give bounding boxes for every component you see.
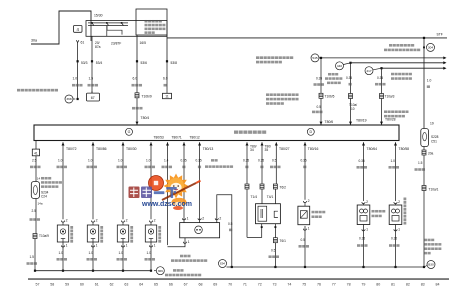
current track numbers [36, 283, 440, 287]
svg-text:0.5: 0.5 [272, 159, 277, 163]
svg-text:T6/2: T6/2 [280, 186, 287, 190]
svg-text:61: 61 [81, 40, 85, 44]
svg-text:1: 1 [187, 216, 189, 220]
svg-text:0.5: 0.5 [301, 238, 306, 242]
wire 440 to connector T10a/10 [346, 63, 367, 125]
svg-text:1.0: 1.0 [73, 76, 78, 80]
injector ground wire at x 151 [145, 242, 156, 272]
svg-text:368: 368 [66, 97, 71, 101]
note 417 connection point [391, 73, 412, 80]
svg-text:0.35: 0.35 [359, 236, 365, 240]
svg-text:T10a/3: T10a/3 [385, 95, 395, 99]
note connection point engine harness upper [171, 255, 207, 262]
svg-text:73: 73 [273, 283, 277, 287]
svg-text:82: 82 [406, 283, 410, 287]
svg-text:2.5: 2.5 [32, 159, 37, 163]
wire 545 to connector T10b/5 [312, 57, 335, 125]
svg-text:T10a/1: T10a/1 [429, 187, 439, 191]
svg-text:C24: C24 [41, 195, 47, 199]
svg-text:60: 60 [80, 283, 84, 287]
injector valve at x 151 [145, 219, 161, 243]
svg-text:369: 369 [158, 269, 163, 273]
svg-text:T80/13: T80/13 [203, 147, 214, 151]
svg-text:1.4: 1.4 [164, 159, 169, 163]
note 440 connection point [325, 73, 342, 84]
svg-text:10: 10 [351, 107, 355, 111]
fuel pump relay box [136, 9, 167, 35]
svg-text:D: D [309, 130, 312, 134]
svg-text:0.5: 0.5 [271, 248, 276, 252]
junction point 440 line [336, 61, 447, 70]
svg-text:www.dzsc.com: www.dzsc.com [141, 201, 192, 208]
svg-text:57: 57 [36, 283, 40, 287]
svg-text:62: 62 [110, 283, 114, 287]
svg-text:1.0: 1.0 [119, 251, 124, 255]
svg-text:81: 81 [391, 283, 395, 287]
ignition coil ground wire at x 395.5 [389, 225, 400, 269]
svg-text:53/8: 53/8 [171, 61, 178, 65]
svg-text:6.0: 6.0 [133, 77, 138, 81]
svg-text:T80/28: T80/28 [385, 118, 396, 122]
svg-text:STF: STF [437, 33, 443, 37]
svg-text:0.35: 0.35 [301, 159, 307, 163]
current track rail [28, 278, 449, 280]
svg-text:1: 1 [188, 240, 190, 244]
ECU engine control unit box [34, 125, 399, 141]
svg-text:6.0: 6.0 [163, 77, 168, 81]
svg-text:79: 79 [361, 283, 365, 287]
svg-text:84: 84 [436, 283, 440, 287]
wire T80/71 to throttle unit lower pin [162, 142, 190, 247]
svg-text:61: 61 [95, 283, 99, 287]
junction point 368 [65, 95, 75, 103]
svg-text:S234: S234 [41, 190, 49, 194]
wire 61 to junction 53/3 [77, 43, 88, 65]
svg-text:1.0: 1.0 [59, 251, 64, 255]
fuse S234 [31, 182, 48, 199]
svg-text:14a: 14a [38, 202, 43, 206]
svg-text:76: 76 [317, 283, 321, 287]
note plug on gearbox control unit [384, 110, 409, 117]
svg-text:30a: 30a [31, 39, 37, 43]
svg-text:0.35: 0.35 [258, 159, 264, 163]
junction point 304 [423, 43, 434, 51]
connector T6/1 to ground [269, 238, 287, 268]
svg-text:0.35: 0.35 [359, 159, 365, 163]
svg-text:1.0: 1.0 [58, 159, 63, 163]
component box 11 [163, 93, 172, 98]
svg-text:1: 1 [366, 227, 368, 231]
svg-text:72: 72 [258, 283, 262, 287]
svg-text:35: 35 [265, 148, 269, 152]
svg-text:1: 1 [96, 244, 98, 248]
svg-text:417: 417 [366, 69, 371, 73]
injector ground wire at x 63 [57, 242, 68, 272]
watermark logo text [129, 187, 192, 209]
svg-text:67: 67 [91, 96, 95, 100]
junction point 417 line [365, 67, 447, 75]
svg-text:T80/19: T80/19 [356, 118, 367, 122]
wire 53/4 to relay 67 [88, 36, 103, 93]
ignition coil box at x 363.5 [357, 205, 370, 225]
injector valve at x 63 [57, 219, 73, 243]
svg-text:1.0: 1.0 [118, 159, 123, 163]
svg-text:83: 83 [421, 283, 425, 287]
wire to fuse S234 [30, 156, 41, 182]
wire 53/8 to box 11 [163, 35, 177, 93]
note green connection point fuse box [384, 44, 420, 51]
svg-text:2: 2 [126, 219, 128, 223]
fuse holder box 41 [32, 141, 39, 156]
relay 67 box [87, 91, 100, 101]
injector valve at x 123 [117, 219, 133, 243]
svg-text:E94: E94 [220, 262, 225, 266]
svg-text:34: 34 [250, 148, 254, 152]
svg-text:77: 77 [332, 283, 336, 287]
note air temperature sensor [372, 210, 386, 217]
note plug engine bay harness [266, 93, 299, 104]
svg-text:T80/71: T80/71 [172, 136, 182, 140]
wire 53/6 fuel pump feed [132, 35, 148, 93]
svg-text:T80/12: T80/12 [190, 136, 200, 140]
svg-text:T1/4: T1/4 [251, 195, 258, 199]
svg-text:0.35: 0.35 [316, 77, 322, 81]
svg-text:T10b/9: T10b/9 [142, 95, 152, 99]
svg-text:41: 41 [34, 151, 38, 155]
wire T80/13 to throttle unit [196, 142, 214, 222]
svg-text:S228: S228 [431, 135, 439, 139]
junction point 369 [154, 267, 164, 275]
svg-text:0.5: 0.5 [228, 222, 233, 226]
note ignition coil power plug vertical [404, 198, 407, 225]
right ground bus wire [227, 266, 426, 268]
wire fuse to connector T10a/9 [27, 199, 50, 271]
svg-text:74: 74 [287, 283, 291, 287]
injector valve at x 93 [87, 219, 103, 243]
wire into ECU pin T80/4 [132, 98, 149, 125]
svg-text:11: 11 [165, 95, 169, 99]
junction point B30 [424, 261, 435, 269]
relay text note [145, 20, 166, 34]
svg-text:1.5: 1.5 [418, 161, 423, 165]
svg-text:69: 69 [213, 283, 217, 287]
wire relay pin 20/87a [91, 21, 101, 49]
svg-text:23/87F: 23/87F [111, 42, 121, 46]
wire T80/16 to canister valve [301, 142, 319, 206]
svg-text:1: 1 [154, 244, 156, 248]
svg-text:2: 2 [398, 200, 400, 204]
svg-text:2: 2 [366, 200, 368, 204]
svg-text:68: 68 [198, 283, 202, 287]
svg-text:T80/27: T80/27 [279, 147, 290, 151]
relay contacts [88, 22, 128, 34]
svg-text:304: 304 [428, 45, 433, 49]
svg-text:0.35: 0.35 [391, 236, 397, 240]
svg-text:G: G [128, 130, 131, 134]
wire T80/35 [258, 142, 273, 203]
svg-text:1.5: 1.5 [30, 255, 35, 259]
relay plate box [86, 21, 167, 37]
svg-text:2: 2 [96, 219, 98, 223]
svg-text:67: 67 [184, 283, 188, 287]
ignition coil wire T80/58 [389, 142, 410, 205]
wire 30a supply [31, 11, 91, 44]
svg-text:19: 19 [430, 122, 434, 126]
svg-text:2: 2 [308, 199, 310, 203]
ignition coil ground wire at x 363.5 [357, 225, 368, 269]
junction on bus [423, 37, 425, 39]
note connection point 97a [424, 239, 441, 255]
ECU bottom pin labels [154, 136, 200, 140]
svg-text:T80/72: T80/72 [66, 147, 77, 151]
svg-text:T80/53: T80/53 [154, 136, 164, 140]
svg-text:0.35: 0.35 [377, 76, 383, 80]
svg-text:14: 14 [37, 177, 41, 181]
note connection point wiring harness [256, 56, 293, 63]
svg-text:1: 1 [126, 244, 128, 248]
wire to T10a/1 [415, 155, 439, 267]
svg-text:1.0: 1.0 [89, 251, 94, 255]
injector cylinder wire T80/72 [57, 142, 77, 219]
svg-text:0.35: 0.35 [346, 76, 352, 80]
svg-text:T80/16: T80/16 [308, 147, 319, 151]
wire T80/58 label correction [0, 0, 1, 1]
svg-text:20a: 20a [428, 152, 434, 156]
svg-text:T80/64: T80/64 [367, 147, 378, 151]
svg-text:T10b/5: T10b/5 [325, 94, 335, 98]
svg-text:1.5: 1.5 [89, 76, 94, 80]
injector cylinder wire T80/86 [87, 142, 107, 219]
svg-text:1.0: 1.0 [391, 159, 396, 163]
connector 61 [76, 40, 84, 44]
svg-text:T6/1: T6/1 [280, 239, 287, 243]
watermark mascot [149, 174, 201, 211]
note fuse 16A [41, 177, 62, 188]
svg-text:T80/86: T80/86 [96, 147, 107, 151]
svg-text:75: 75 [302, 283, 306, 287]
svg-text:16/5: 16/5 [140, 41, 147, 45]
wire 417 to connector T10a/3 [375, 68, 396, 125]
svg-text:T80/6: T80/6 [325, 120, 334, 124]
svg-text:2: 2 [154, 219, 156, 223]
svg-text:T80/30: T80/30 [126, 147, 137, 151]
junction point 545 line [311, 54, 447, 62]
injector ground wire at x 123 [117, 242, 128, 272]
injector cylinder wire [145, 142, 156, 219]
ECU symbol G [126, 128, 133, 135]
carbon canister solenoid valve N80 [298, 206, 325, 225]
svg-text:70: 70 [228, 283, 232, 287]
ground point E94 [219, 260, 227, 268]
svg-text:0.35: 0.35 [181, 159, 187, 163]
svg-text:87a: 87a [95, 45, 101, 49]
svg-text:1: 1 [308, 227, 310, 231]
svg-text:1: 1 [66, 244, 68, 248]
note plug on engine control unit 2 [205, 159, 233, 168]
connector 20a [422, 147, 434, 156]
main bus wire 30 circuit [167, 33, 447, 38]
svg-text:53/4: 53/4 [96, 61, 103, 65]
svg-text:545: 545 [312, 56, 317, 60]
throttle control unit box [180, 223, 220, 238]
relay position box 4 [74, 26, 83, 33]
svg-text:59: 59 [65, 283, 69, 287]
svg-text:2: 2 [202, 216, 204, 220]
svg-text:0.35: 0.35 [243, 159, 249, 163]
svg-text:0.5: 0.5 [317, 105, 322, 109]
note connection point instrument panel [17, 89, 58, 92]
connector T10b/9 [135, 93, 152, 99]
injector cylinder wire T80/30 [117, 142, 137, 219]
wire T80/34 [243, 142, 262, 237]
svg-text:0.35: 0.35 [196, 159, 202, 163]
svg-text:58: 58 [50, 283, 54, 287]
svg-text:1.0: 1.0 [146, 159, 151, 163]
note connection point engine harness lower [165, 269, 201, 276]
svg-text:1.0: 1.0 [147, 251, 152, 255]
svg-text:T80/58: T80/58 [399, 147, 410, 151]
ignition coil power output stage box [256, 204, 281, 224]
svg-text:1.0: 1.0 [88, 159, 93, 163]
wire ignition supply right column [424, 38, 434, 129]
svg-text:80: 80 [376, 283, 380, 287]
ignition coil wire T80/64 [357, 142, 378, 205]
svg-text:53/6: 53/6 [141, 61, 148, 65]
svg-text:71: 71 [243, 283, 247, 287]
svg-text:T10a/9: T10a/9 [39, 234, 49, 238]
spark plug connector S228 [421, 129, 439, 147]
injector ground wire at x 93 [87, 242, 98, 272]
svg-text:B30: B30 [428, 263, 434, 267]
throttle unit pin 2 wire to ground E94 [215, 195, 233, 268]
svg-text:64: 64 [139, 283, 143, 287]
output stage bottom pins [261, 224, 277, 238]
ignition coil box at x 395.5 [389, 205, 402, 225]
ECU label text [234, 130, 266, 133]
svg-text:15/30: 15/30 [94, 14, 103, 18]
wire relay pin 23/87F [107, 26, 121, 46]
wire T80/12 to throttle unit [181, 142, 189, 222]
svg-text:2: 2 [66, 219, 68, 223]
svg-text:2: 2 [219, 216, 221, 220]
svg-text:T80/4: T80/4 [141, 116, 150, 120]
svg-text:C51: C51 [431, 140, 437, 144]
left ground bus wire [34, 270, 151, 272]
svg-text:66: 66 [169, 283, 173, 287]
svg-text:63: 63 [124, 283, 128, 287]
svg-text:T4/1: T4/1 [267, 195, 274, 199]
canister valve ground wire [299, 226, 310, 268]
svg-text:53/3: 53/3 [81, 61, 88, 65]
wire to junction point 368 [72, 61, 83, 100]
ECU symbol D [307, 128, 314, 135]
svg-text:1.0: 1.0 [427, 79, 432, 83]
svg-text:440: 440 [337, 64, 342, 68]
svg-text:1: 1 [398, 227, 400, 231]
svg-text:2.5: 2.5 [32, 209, 37, 213]
wire T80/27 [270, 142, 290, 203]
svg-text:65: 65 [154, 283, 158, 287]
svg-text:78: 78 [347, 283, 351, 287]
